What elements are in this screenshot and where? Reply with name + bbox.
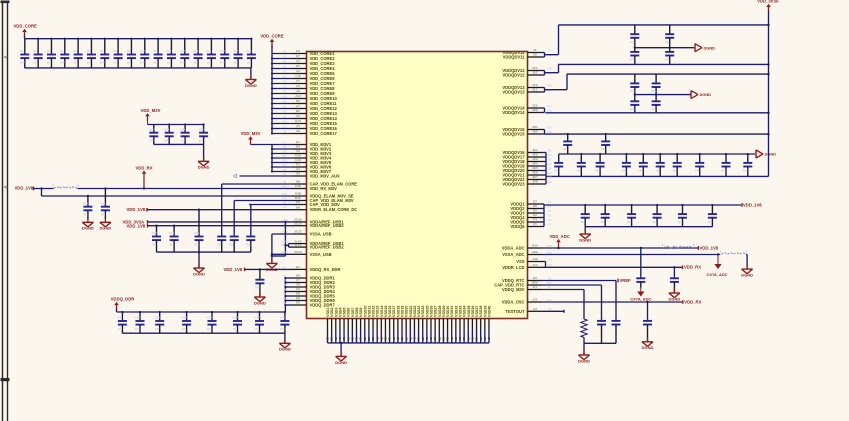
pin VSS23 bbox=[418, 319, 420, 330]
wire VSSA bus bottom bbox=[272, 253, 293, 255]
pin VDDQ_DDR5 bbox=[293, 295, 307, 297]
wire VDDR rail bbox=[148, 209, 293, 211]
pin VDD_CORE13 bbox=[293, 113, 307, 115]
svg-text:D6A: D6A bbox=[532, 281, 539, 285]
capacitor C28 to ground bbox=[87, 195, 89, 197]
wire VSSA_ADC rail bbox=[542, 254, 721, 256]
pin VSS3 bbox=[335, 319, 337, 330]
svg-text:104: 104 bbox=[255, 327, 260, 331]
svg-text:104: 104 bbox=[100, 213, 105, 217]
svg-text:104: 104 bbox=[255, 286, 260, 290]
wire VDD_CORE pin 16 bbox=[272, 128, 293, 130]
power symbol VDD_3V3A right bbox=[766, 4, 771, 7]
svg-text:E2: E2 bbox=[533, 209, 537, 213]
pin VDDQDV14 B bbox=[528, 112, 542, 114]
svg-text:C45: C45 bbox=[207, 316, 213, 320]
svg-text:32A: 32A bbox=[547, 104, 552, 108]
svg-text:3E5: 3E5 bbox=[532, 166, 538, 170]
capacitor C68 bbox=[567, 134, 569, 141]
capacitor C9 bbox=[130, 39, 132, 55]
pin VSS17 bbox=[393, 319, 395, 330]
wire bottom bus top row bbox=[25, 67, 251, 69]
pin VDDQDV13 A bbox=[528, 87, 542, 89]
svg-text:VSSA_USB: VSSA_USB bbox=[310, 252, 332, 257]
wire VDDQ_DDR stem bbox=[116, 309, 118, 312]
svg-text:A1: A1 bbox=[283, 69, 287, 73]
svg-text:E9: E9 bbox=[296, 301, 300, 305]
svg-text:DGND: DGND bbox=[741, 273, 753, 278]
svg-text:D4A: D4A bbox=[547, 244, 552, 248]
ferrite bead L2 bbox=[664, 246, 693, 248]
svg-text:B4: B4 bbox=[296, 145, 300, 149]
ground DGND mid bank bbox=[198, 264, 200, 269]
capacitor C62 bbox=[634, 48, 636, 52]
svg-text:E8: E8 bbox=[296, 296, 300, 300]
svg-text:C6: C6 bbox=[296, 149, 300, 153]
svg-text:104: 104 bbox=[180, 60, 185, 64]
svg-text:31G: 31G bbox=[547, 66, 552, 70]
capacitor C83 bbox=[656, 205, 658, 214]
svg-text:104: 104 bbox=[180, 139, 185, 143]
svg-text:D7: D7 bbox=[548, 200, 552, 204]
pin VDD_CORE2 bbox=[293, 58, 307, 60]
ground DGND VDDQ_DDR bbox=[284, 339, 286, 344]
capacitor C63 bbox=[669, 48, 671, 52]
capacitor C23 M3V bbox=[203, 125, 205, 133]
capacitor C48 bbox=[284, 312, 286, 321]
wire VDD_CORE pin 1 bbox=[272, 53, 293, 55]
pin VDD_CORE14 bbox=[293, 118, 307, 120]
wire CAP_VDD_M3V rail bbox=[249, 204, 292, 206]
wire VDDR_LCD rail bbox=[542, 266, 683, 268]
wire ground drop top row bbox=[250, 68, 252, 80]
capacitor C43 bbox=[159, 312, 161, 321]
svg-text:104: 104 bbox=[153, 60, 158, 64]
wire VDD_CORE pin 4 bbox=[272, 68, 293, 70]
wire VDDA_ADC rail bbox=[542, 247, 699, 249]
pin VDD_CORE17 bbox=[293, 133, 307, 135]
svg-text:E2: E2 bbox=[548, 209, 552, 213]
svg-text:D6: D6 bbox=[283, 180, 287, 184]
IC U1 body bbox=[307, 52, 528, 319]
svg-text:C42: C42 bbox=[135, 316, 141, 320]
capacitor C5 bbox=[77, 39, 79, 55]
pin VDDQ_DDR7 bbox=[293, 304, 307, 306]
wire VDDQ_DDR pin 7 bbox=[285, 304, 292, 306]
svg-text:A4: A4 bbox=[283, 167, 287, 171]
wire pair bracket 3 bbox=[544, 88, 546, 93]
svg-text:14B: 14B bbox=[547, 257, 552, 261]
pin VDDQDV16 bbox=[528, 152, 542, 154]
pin VSS16 bbox=[389, 319, 391, 330]
capacitor C74 bbox=[642, 154, 644, 163]
svg-text:32A: 32A bbox=[532, 104, 538, 108]
svg-text:D5: D5 bbox=[533, 276, 537, 280]
capacitor C41 bbox=[121, 312, 123, 321]
pin VDD_CORE8 bbox=[293, 88, 307, 90]
power symbol VDD_CORE 2 bbox=[270, 39, 275, 42]
svg-text:104: 104 bbox=[630, 40, 635, 44]
capacitor C65 bbox=[655, 74, 657, 83]
svg-text:104: 104 bbox=[194, 242, 199, 246]
svg-text:104: 104 bbox=[20, 60, 25, 64]
svg-text:C7: C7 bbox=[283, 278, 287, 282]
svg-text:C7: C7 bbox=[100, 49, 104, 53]
capacitor C37 bbox=[233, 236, 235, 238]
svg-text:C20: C20 bbox=[149, 127, 155, 131]
svg-text:A6: A6 bbox=[296, 89, 300, 93]
svg-text:31G: 31G bbox=[532, 66, 538, 70]
wire osc gnd drop bbox=[583, 343, 585, 355]
wire CAP_VDD_ELAM_M3V rail bbox=[234, 200, 292, 202]
svg-text:104: 104 bbox=[580, 220, 585, 224]
wire VDD_CORE pin 2 bbox=[272, 58, 293, 60]
svg-text:3L1B: 3L1B bbox=[281, 240, 287, 244]
svg-text:C9: C9 bbox=[283, 287, 287, 291]
svg-text:C16: C16 bbox=[220, 49, 226, 53]
svg-text:D8: D8 bbox=[533, 204, 537, 208]
capacitor C17 bbox=[237, 39, 239, 55]
svg-text:104: 104 bbox=[169, 242, 174, 246]
svg-text:C10: C10 bbox=[282, 74, 287, 78]
capacitor C93 bbox=[615, 319, 617, 321]
svg-text:C13: C13 bbox=[180, 49, 186, 53]
pin VSSA_USB 2 bbox=[293, 253, 307, 255]
ground DGND C91 bbox=[673, 289, 675, 294]
wire top rail VDD_3V3A bbox=[559, 24, 769, 26]
pin VSS29 bbox=[442, 319, 444, 330]
wire vertical C93 bbox=[615, 281, 617, 320]
ground DGND M3V bank bbox=[203, 157, 205, 162]
svg-text:B10: B10 bbox=[295, 119, 301, 123]
pin VDDQ_RX_DDR bbox=[293, 268, 307, 270]
svg-text:B7: B7 bbox=[283, 265, 287, 269]
capacitor C35 bbox=[198, 210, 200, 237]
svg-text:C41: C41 bbox=[117, 316, 123, 320]
svg-text:F7: F7 bbox=[296, 79, 300, 83]
svg-text:VDD_RX: VDD_RX bbox=[136, 165, 153, 170]
svg-text:F4: F4 bbox=[533, 218, 537, 222]
svg-text:3J1: 3J1 bbox=[532, 298, 537, 302]
svg-text:C47: C47 bbox=[255, 316, 261, 320]
svg-text:104: 104 bbox=[638, 169, 643, 173]
svg-text:3E3: 3E3 bbox=[532, 157, 538, 161]
wire VDD_CORE pin 11 bbox=[272, 103, 293, 105]
svg-text:D9: D9 bbox=[296, 292, 300, 296]
wire VDD_CORE pin 9 bbox=[272, 93, 293, 95]
capacitor C29 to ground bbox=[104, 187, 106, 189]
pin VSS15 bbox=[384, 319, 386, 330]
pin VDDA_ADC bbox=[528, 247, 542, 249]
svg-text:A6: A6 bbox=[283, 89, 287, 93]
svg-text:3E4: 3E4 bbox=[532, 162, 538, 166]
ground DGND C29 bbox=[104, 218, 106, 223]
svg-text:3J1: 3J1 bbox=[547, 298, 552, 302]
pin VDD_CORE1 bbox=[293, 53, 307, 55]
svg-text:C4: C4 bbox=[283, 59, 287, 63]
pin VDDQDV21 bbox=[528, 174, 542, 176]
wire band3 top rail bbox=[545, 133, 769, 135]
svg-text:D10: D10 bbox=[295, 154, 301, 158]
pin TESTOUT bbox=[528, 310, 542, 312]
svg-text:D9: D9 bbox=[283, 292, 287, 296]
wire lcd bracket bbox=[545, 262, 547, 268]
svg-text:VDDA_OSC: VDDA_OSC bbox=[502, 300, 525, 305]
power symbol VDDQ_DDR bbox=[114, 302, 119, 305]
svg-text:C35: C35 bbox=[194, 231, 200, 235]
svg-text:C43: C43 bbox=[155, 316, 161, 320]
svg-text:DGND: DGND bbox=[765, 152, 777, 157]
wire VDD_1V8 rail 2 bbox=[148, 225, 293, 227]
svg-text:C4: C4 bbox=[60, 49, 64, 53]
pin VSS13 bbox=[376, 319, 378, 330]
pin CAP_VDD_RTC bbox=[528, 284, 542, 286]
svg-text:104: 104 bbox=[135, 327, 140, 331]
svg-text:B6: B6 bbox=[296, 205, 300, 209]
pin VDDQ_RTC bbox=[528, 280, 542, 282]
pin VSS5 bbox=[343, 319, 345, 330]
svg-text:104: 104 bbox=[651, 89, 656, 93]
svg-text:DGND: DGND bbox=[100, 226, 112, 231]
svg-text:3E7: 3E7 bbox=[547, 175, 552, 179]
svg-text:VDD_RX: VDD_RX bbox=[684, 265, 701, 270]
svg-text:C33: C33 bbox=[152, 231, 158, 235]
svg-text:C11: C11 bbox=[153, 49, 158, 53]
svg-text:VDD_CORE17: VDD_CORE17 bbox=[310, 131, 338, 136]
svg-text:104: 104 bbox=[152, 242, 157, 246]
svg-text:C18: C18 bbox=[246, 49, 252, 53]
svg-text:104: 104 bbox=[33, 60, 38, 64]
capacitor C79 bbox=[747, 154, 749, 163]
pin VSS25 bbox=[426, 319, 428, 330]
pin VDD_M3V1 bbox=[293, 144, 307, 146]
wire usb link bbox=[272, 255, 286, 257]
svg-text:VDD_M3V: VDD_M3V bbox=[241, 131, 261, 136]
pin VSS36 bbox=[471, 319, 473, 330]
svg-text:32B: 32B bbox=[547, 108, 552, 112]
pin VDD_CORE6 bbox=[293, 78, 307, 80]
wire VDDQ_RX_DDR rail bbox=[245, 268, 293, 270]
wire VDD_CORE pin 10 bbox=[272, 98, 293, 100]
svg-text:C6: C6 bbox=[283, 149, 287, 153]
ground DGND arrow band2 bbox=[690, 91, 692, 99]
svg-text:104: 104 bbox=[665, 58, 670, 62]
svg-text:DGND: DGND bbox=[642, 345, 654, 350]
svg-text:3E1: 3E1 bbox=[532, 148, 538, 152]
svg-text:B7: B7 bbox=[296, 265, 300, 269]
wire group VDDQDV16-23 bracket bbox=[545, 153, 547, 185]
svg-text:VDDQDV15: VDDQDV15 bbox=[502, 132, 525, 137]
pin VSS11 bbox=[368, 319, 370, 330]
wire band3 bottom rail bbox=[546, 175, 769, 177]
wire VDDQ_DDR pin 3 bbox=[285, 286, 292, 288]
svg-text:D10: D10 bbox=[282, 154, 287, 158]
svg-text:DGND: DGND bbox=[254, 300, 266, 305]
svg-text:104: 104 bbox=[630, 89, 635, 93]
svg-text:104: 104 bbox=[217, 242, 222, 246]
pin VSS21 bbox=[409, 319, 411, 330]
svg-text:VDDQ_M3V: VDDQ_M3V bbox=[502, 287, 525, 292]
wire usb 3v3 vertical bbox=[284, 222, 286, 256]
wire VDD_CORE pin 5 bbox=[272, 73, 293, 75]
svg-text:B5: B5 bbox=[296, 99, 300, 103]
svg-text:VDD_M3V_AUX: VDD_M3V_AUX bbox=[310, 174, 341, 179]
pin VDDQDV15 A bbox=[528, 129, 542, 131]
wire VDDQ_DDR pin 6 bbox=[285, 300, 292, 302]
pin VSS24 bbox=[422, 319, 424, 330]
capacitor C70 bbox=[558, 154, 560, 163]
wire top bus VDD_CORE bbox=[25, 38, 251, 40]
wire VDDQ_DDR pin 4 bbox=[285, 291, 292, 293]
wire band4 pin bracket bbox=[543, 204, 545, 227]
power symbol VDD_1V8 adc bbox=[697, 246, 699, 250]
svg-text:<: < bbox=[4, 55, 7, 61]
svg-text:E4D: E4D bbox=[295, 184, 302, 188]
pin VDDQDV14 A bbox=[528, 107, 542, 109]
wire to DGND band bbox=[746, 254, 747, 256]
svg-text:2F: 2F bbox=[548, 48, 551, 52]
svg-text:B2: B2 bbox=[283, 109, 287, 113]
svg-text:A1: A1 bbox=[296, 69, 300, 73]
wire band4 bottom rail bbox=[585, 226, 712, 228]
capacitor C2 bbox=[37, 39, 39, 55]
svg-text:C29: C29 bbox=[100, 201, 106, 205]
svg-text:B10: B10 bbox=[282, 119, 287, 123]
capacitor C6 bbox=[90, 39, 92, 55]
wire M3V bank bottom bus bbox=[154, 143, 204, 145]
ground DGND adc bbox=[746, 265, 748, 270]
svg-text:DGND: DGND bbox=[335, 360, 347, 365]
svg-text:DGND: DGND bbox=[579, 237, 591, 242]
capacitor C11 bbox=[157, 39, 159, 55]
capacitor C82 bbox=[631, 205, 633, 214]
svg-text:VDD_CORE: VDD_CORE bbox=[14, 24, 37, 29]
pin VSS10 bbox=[364, 319, 366, 330]
svg-text:104: 104 bbox=[100, 60, 105, 64]
ground DGND arrow band3 bbox=[755, 150, 757, 158]
resistor R1 bbox=[581, 319, 587, 337]
pin VDDQDV20 bbox=[528, 170, 542, 172]
svg-text:3E8: 3E8 bbox=[547, 180, 552, 184]
pin VDD_CORE3 bbox=[293, 63, 307, 65]
pin VDDQ1 bbox=[528, 203, 542, 205]
svg-text:VDDR_ELAM_CORE_DC: VDDR_ELAM_CORE_DC bbox=[310, 207, 358, 212]
pin VDD_CORE12 bbox=[293, 108, 307, 110]
svg-text:C17: C17 bbox=[233, 49, 239, 53]
wire M3V bank top bus bbox=[148, 124, 204, 126]
svg-text:104: 104 bbox=[207, 327, 212, 331]
svg-text:DGND: DGND bbox=[700, 92, 712, 97]
pin CAP_VDD_ELAM_CORE bbox=[293, 183, 307, 185]
capacitor C85 bbox=[711, 205, 713, 214]
svg-text:VSSA_ADC: VSSA_ADC bbox=[502, 252, 524, 257]
svg-text:E5: E5 bbox=[283, 64, 287, 68]
svg-text:104: 104 bbox=[220, 60, 225, 64]
pin VDDQDV22 bbox=[528, 179, 542, 181]
wire VDD_CORE pin 15 bbox=[272, 123, 293, 125]
svg-text:104: 104 bbox=[563, 147, 568, 151]
power symbol VDD_1V8 band4 bbox=[741, 203, 743, 207]
svg-text:C46: C46 bbox=[233, 316, 239, 320]
ground DGND C40 bbox=[259, 293, 261, 298]
wire VDD_M3V pin 3 bbox=[272, 153, 293, 155]
capacitor C64 bbox=[634, 74, 636, 83]
svg-text:104: 104 bbox=[140, 60, 145, 64]
svg-text:C2: C2 bbox=[33, 49, 37, 53]
pin VDDQDV11 B bbox=[528, 56, 542, 58]
svg-text:C21: C21 bbox=[164, 127, 170, 131]
capacitor C60 bbox=[634, 25, 636, 34]
capacitor C69 bbox=[605, 134, 607, 141]
pin VSS39 bbox=[484, 319, 486, 330]
svg-text:A10: A10 bbox=[295, 94, 301, 98]
pin VDD_CORE9 bbox=[293, 93, 307, 95]
wire CAP_VDD_ELAM_CORE rail bbox=[222, 183, 293, 185]
capacitor C71 bbox=[580, 154, 582, 163]
svg-text:VDDA/REF_USB2: VDDA/REF_USB2 bbox=[310, 245, 345, 250]
wire VDD_CORE bus stem bbox=[271, 46, 273, 47]
wire TESTOUT stub bbox=[542, 310, 565, 312]
svg-text:D7: D7 bbox=[533, 200, 537, 204]
ground DGND top row bbox=[250, 75, 252, 80]
svg-text:E5: E5 bbox=[296, 64, 300, 68]
svg-text:3E5: 3E5 bbox=[547, 166, 552, 170]
wire pair3 link bbox=[545, 89, 568, 91]
capacitor C20 M3V bbox=[153, 125, 155, 133]
svg-text:TESTOUT: TESTOUT bbox=[505, 309, 525, 314]
svg-text:C5: C5 bbox=[73, 49, 77, 53]
svg-text:3E6: 3E6 bbox=[532, 171, 538, 175]
svg-text:104: 104 bbox=[149, 139, 154, 143]
svg-text:104: 104 bbox=[193, 60, 198, 64]
svg-text:E4: E4 bbox=[548, 285, 552, 289]
svg-text:VDD_1V8: VDD_1V8 bbox=[743, 202, 762, 207]
svg-text:D4B: D4B bbox=[295, 192, 302, 196]
capacitor C42 bbox=[139, 312, 141, 321]
pin VDD_CORE16 bbox=[293, 128, 307, 130]
svg-text:VDD_1V8: VDD_1V8 bbox=[15, 185, 34, 190]
svg-text:4B: 4B bbox=[487, 337, 491, 341]
svg-text:VDD_1V8: VDD_1V8 bbox=[127, 223, 146, 228]
svg-text:B8: B8 bbox=[283, 274, 287, 278]
svg-text:VDDQDV11: VDDQDV11 bbox=[503, 55, 526, 60]
svg-text:104: 104 bbox=[199, 139, 204, 143]
svg-text:B5: B5 bbox=[283, 99, 287, 103]
wire VDDQ_ELAM rail bbox=[42, 195, 293, 197]
wire VDD_M3V_AUX bbox=[240, 175, 293, 177]
pin VSS9 bbox=[360, 319, 362, 330]
pin VSS14 bbox=[380, 319, 382, 330]
wire VDD_M3V to bus bbox=[251, 144, 273, 146]
svg-text:E6: E6 bbox=[283, 200, 287, 204]
svg-text:C28: C28 bbox=[83, 201, 89, 205]
wire band2 gnd line bbox=[635, 94, 691, 96]
svg-text:VDDQ6: VDDQ6 bbox=[510, 224, 525, 229]
svg-text:E7: E7 bbox=[283, 54, 287, 58]
svg-text:DGND: DGND bbox=[193, 271, 205, 276]
svg-text:VDD_1V8: VDD_1V8 bbox=[127, 207, 146, 212]
svg-text:C48: C48 bbox=[280, 316, 286, 320]
svg-text:104: 104 bbox=[576, 169, 581, 173]
pin VSS30 bbox=[447, 319, 449, 330]
wire VDD_CORE stem bbox=[24, 36, 26, 39]
svg-text:3E6: 3E6 bbox=[547, 171, 552, 175]
pin VDDA/REF_USB3 bbox=[293, 243, 307, 245]
capacitor C44 bbox=[186, 312, 188, 321]
svg-text:A2: A2 bbox=[548, 307, 552, 311]
svg-text:F1: F1 bbox=[296, 163, 300, 167]
wire vertical to C30 bbox=[221, 184, 223, 237]
